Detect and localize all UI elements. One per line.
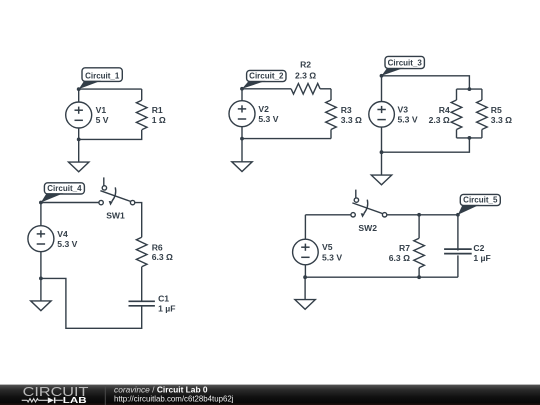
label R4 2.3 Ω [429, 105, 450, 125]
label Circuit_2 [242, 70, 286, 88]
label C1 1 µF [158, 294, 175, 314]
wire [457, 88, 482, 90]
resistor R6 [136, 237, 147, 266]
node [456, 213, 460, 217]
label Circuit_1 [79, 68, 123, 89]
wire [457, 137, 482, 139]
svg-text:R3: R3 [341, 105, 352, 115]
switch SW1 [99, 177, 135, 205]
label R2 2.3 Ω [295, 60, 316, 81]
node [39, 201, 43, 205]
wire [242, 138, 331, 140]
svg-text:V3: V3 [398, 105, 409, 115]
node [468, 87, 472, 91]
wire [135, 203, 142, 238]
resistor R5 [477, 89, 488, 138]
node [417, 275, 421, 279]
svg-text:1 µF: 1 µF [473, 253, 490, 263]
label V3 5.3 V [398, 105, 418, 125]
ground [371, 152, 391, 185]
logo resistor zigzag [22, 399, 48, 402]
wire [305, 276, 458, 278]
node [380, 150, 384, 154]
label R5 3.3 Ω [491, 105, 512, 125]
svg-text:V1: V1 [96, 105, 107, 115]
svg-text:Circuit_5: Circuit_5 [463, 196, 498, 205]
svg-text:LAB: LAB [63, 396, 87, 405]
node [380, 74, 384, 78]
ground [232, 139, 252, 172]
label C2 1 µF [473, 243, 490, 263]
wire [79, 130, 142, 139]
label Circuit_3 [382, 56, 425, 75]
footer separator [104, 385, 106, 405]
svg-text:1 Ω: 1 Ω [152, 115, 166, 125]
label V5 5.3 V [322, 242, 342, 262]
label R3 3.3 Ω [341, 105, 362, 125]
svg-text:V2: V2 [258, 104, 269, 114]
ground [69, 139, 89, 171]
svg-text:5.3 V: 5.3 V [398, 115, 418, 125]
svg-text:5.3 V: 5.3 V [258, 114, 278, 124]
svg-text:SW1: SW1 [106, 211, 125, 221]
wire [382, 76, 470, 89]
svg-text:Circuit_4: Circuit_4 [47, 184, 82, 193]
footer title coravince / Circuit Lab 0 [114, 385, 208, 395]
svg-text:3.3 Ω: 3.3 Ω [341, 115, 362, 125]
wire [382, 138, 470, 152]
ground [295, 277, 315, 309]
resistor R4 [451, 89, 462, 138]
svg-text:R1: R1 [152, 105, 163, 115]
node [468, 136, 472, 140]
ground [31, 278, 51, 310]
footer bar [0, 385, 540, 405]
voltage source V5 [293, 215, 319, 277]
wire [41, 202, 99, 204]
label R6 6.3 Ω [152, 242, 173, 262]
wire [387, 214, 458, 216]
resistor R7 [414, 215, 425, 277]
wire [41, 278, 142, 328]
node [77, 87, 81, 91]
footer url text [114, 395, 234, 404]
svg-text:R5: R5 [491, 105, 502, 115]
svg-text:SW2: SW2 [358, 223, 377, 233]
wire [141, 267, 143, 301]
node [39, 277, 43, 281]
node [240, 137, 244, 141]
svg-text:1 µF: 1 µF [158, 303, 175, 313]
svg-text:6.3 Ω: 6.3 Ω [152, 252, 173, 262]
svg-text:R2: R2 [300, 60, 311, 70]
svg-text:Circuit_3: Circuit_3 [388, 59, 423, 68]
svg-text:2.3 Ω: 2.3 Ω [295, 70, 316, 80]
switch SW2 [351, 190, 387, 218]
svg-text:6.3 Ω: 6.3 Ω [389, 253, 410, 263]
capacitor C2 [444, 215, 472, 277]
svg-text:3.3 Ω: 3.3 Ω [491, 115, 512, 125]
svg-text:Circuit_2: Circuit_2 [249, 72, 284, 81]
resistor R1 [136, 89, 147, 130]
svg-text:5 V: 5 V [96, 115, 109, 125]
svg-text:C1: C1 [158, 294, 169, 304]
logo LAB [63, 396, 87, 405]
svg-text:http://circuitlab.com/c6t28b4t: http://circuitlab.com/c6t28b4tup62j [114, 395, 234, 404]
svg-text:R7: R7 [399, 243, 410, 253]
svg-text:5.3 V: 5.3 V [57, 239, 77, 249]
voltage source V3 [369, 76, 395, 152]
voltage source V1 [66, 89, 92, 139]
wire [242, 88, 291, 90]
svg-text:R4: R4 [439, 105, 450, 115]
svg-text:coravince / Circuit Lab 0: coravince / Circuit Lab 0 [114, 385, 208, 395]
svg-text:V4: V4 [57, 229, 68, 239]
label R7 6.3 Ω [389, 243, 410, 263]
svg-text:C2: C2 [473, 243, 484, 253]
logo CIRCUIT [23, 384, 89, 399]
svg-text:Circuit_1: Circuit_1 [85, 71, 120, 80]
label Circuit_4 [41, 183, 85, 203]
resistor R2 [291, 84, 331, 95]
wire [79, 88, 142, 90]
svg-text:V5: V5 [322, 242, 333, 252]
label V1 5 V [96, 105, 109, 125]
label Circuit_5 [458, 194, 500, 214]
label V4 5.3 V [57, 229, 77, 249]
node [303, 275, 307, 279]
resistor R3 [326, 89, 337, 139]
capacitor C1 [129, 301, 155, 306]
node [417, 213, 421, 217]
voltage source V2 [229, 89, 255, 139]
label SW1 [106, 211, 125, 221]
node [240, 87, 244, 91]
logo diode [48, 397, 63, 403]
voltage source V4 [28, 203, 54, 279]
label R1 1 Ω [152, 105, 166, 125]
node [77, 138, 81, 142]
svg-text:2.3 Ω: 2.3 Ω [429, 115, 450, 125]
label SW2 [358, 223, 377, 233]
svg-text:R6: R6 [152, 242, 163, 252]
svg-text:5.3 V: 5.3 V [322, 252, 342, 262]
label V2 5.3 V [258, 104, 278, 124]
wire [305, 214, 351, 216]
